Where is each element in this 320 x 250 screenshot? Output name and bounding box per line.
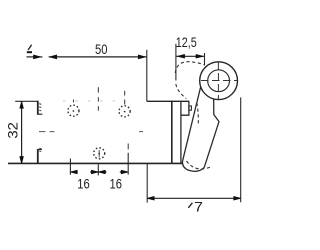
arrows 16 right pair (99, 170, 105, 173)
extension line left of 12,5 (175, 44, 177, 81)
dim line 50 segment (49, 56, 147, 58)
arrows 16 left pair (71, 170, 77, 173)
body left edge lower (37, 149, 39, 164)
plunger block (181, 101, 189, 115)
body top edge right solid segment (147, 100, 190, 102)
arrow up 32 (20, 102, 23, 109)
phantom swing arc bottom (dashed) (187, 161, 213, 169)
arrow right 12,5 (196, 55, 203, 58)
body top-left extension line / bracket top (15, 100, 38, 102)
dim line 4 segment (27, 56, 43, 58)
svg-text:16: 16 (77, 176, 90, 192)
hole H3 (dotted circle) (94, 148, 105, 159)
arrow right 77 (234, 197, 241, 200)
centerline of bottom hole (dashed, above body) (97, 87, 99, 110)
hole H2 (dotted circle) (119, 106, 130, 117)
slot marks upper (39, 104, 41, 111)
bracket stub upper (38, 113, 43, 115)
dim 4 label (28, 45, 31, 50)
svg-text:32: 32 (5, 122, 21, 139)
body bottom edge (with left extension for 32 dim) (8, 162, 184, 164)
body right edge (171, 101, 173, 164)
bracket stub lower (38, 148, 42, 150)
dim line 16 left segment (70, 171, 127, 173)
plunger notch (189, 106, 192, 110)
roller lever arm (white filled) (182, 86, 219, 172)
phantom roller arc (dashed) (175, 62, 204, 73)
arrow right end of 50 segment (138, 55, 145, 59)
roller inner circle (208, 70, 230, 92)
body horizontal centerline dashes (39, 131, 143, 133)
arrow left 77 (148, 197, 155, 200)
arrow left on 50 segment (50, 55, 57, 59)
roller center cross (201, 80, 238, 82)
extension line right of 50 dim (146, 50, 148, 102)
slot marks lower (39, 148, 41, 151)
dashed extension above body bottom at right 16 (127, 144, 129, 150)
svg-text:12,5: 12,5 (176, 34, 197, 50)
body left edge upper (37, 101, 39, 115)
tick under 4 (27, 51, 32, 53)
centerline dash inside bottom hole (98, 150, 100, 157)
switch body top edge (faint hidden line) (63, 100, 118, 102)
phantom lever edge diagonal (dashed) (176, 84, 187, 99)
svg-text:7: 7 (194, 198, 203, 214)
dim line 77 (147, 197, 241, 199)
arrow down 32 (20, 157, 23, 164)
hole H1 (dotted circle) (68, 105, 79, 116)
centerline tick of top-left hole (73, 100, 75, 103)
arrow right on 4 segment (34, 55, 41, 59)
dim 32 vertical line (21, 101, 23, 163)
dim 77 label (188, 203, 192, 208)
extension lines for 16 dims (69, 159, 71, 175)
extension line right of 12,5 (204, 53, 206, 66)
roller outer circle (200, 62, 238, 100)
svg-text:50: 50 (95, 41, 108, 57)
head inner vertical line (180, 101, 182, 163)
dim line 12,5 (176, 55, 205, 57)
phantom lever edge vertical (dashed) (197, 103, 198, 126)
extension line right of 77 (240, 97, 242, 202)
centerline of top-right hole (dashed) (124, 91, 126, 105)
extension line left of 77 (146, 164, 148, 203)
arrow left 12,5 (178, 55, 185, 58)
svg-text:16: 16 (110, 176, 123, 192)
